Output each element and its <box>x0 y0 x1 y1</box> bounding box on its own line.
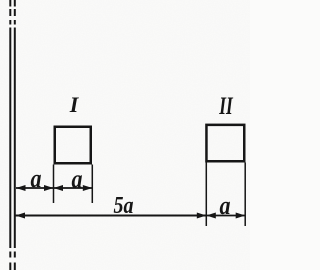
frame I (square loop) <box>55 127 91 164</box>
svg-text:II: II <box>219 93 234 120</box>
svg-text:I: I <box>69 92 80 117</box>
wire right line dashed bottom <box>14 252 16 270</box>
wire right line dashed top <box>14 0 16 25</box>
dimension line 5a (wire to frame II) <box>16 213 207 219</box>
extension line from frame II left edge <box>205 163 207 227</box>
dimension line a (wire to frame I) <box>16 185 54 191</box>
svg-text:a: a <box>72 165 83 194</box>
wire left line dashed top <box>9 0 11 25</box>
wire left line dashed bottom <box>9 252 11 270</box>
svg-text:a: a <box>220 191 231 220</box>
extension line from frame I right edge <box>91 165 93 204</box>
extension line from frame I left edge <box>53 165 55 204</box>
dimension line a (frame I width) <box>54 185 93 191</box>
extension line from frame II right edge <box>244 163 246 227</box>
wire left line solid <box>9 28 11 249</box>
frame II (square loop) <box>206 125 244 161</box>
wire (long straight conductor, double line) <box>10 0 15 270</box>
dimension line a (frame II width) <box>206 213 245 219</box>
svg-text:5a: 5a <box>114 193 134 219</box>
svg-text:a: a <box>31 164 42 193</box>
wire right line solid <box>14 28 16 249</box>
